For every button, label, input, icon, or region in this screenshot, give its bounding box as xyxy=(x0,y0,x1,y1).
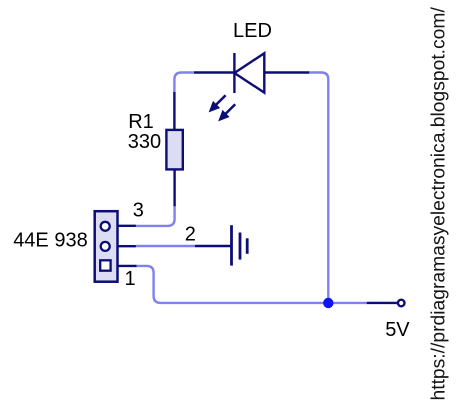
LED emission arrow 1 xyxy=(210,95,226,111)
resistor R1 top lead xyxy=(173,92,175,131)
wire net: resistor top to LED anode-left xyxy=(174,73,194,93)
pin 2 lead xyxy=(118,245,136,247)
LED emission arrow 2 xyxy=(219,104,235,120)
svg-text:1: 1 xyxy=(125,268,136,290)
LED cathode bar xyxy=(233,53,235,93)
LED left lead xyxy=(194,71,234,73)
connector pin circle 2 xyxy=(101,242,110,251)
wire net: pin 1 down to bottom rail and 5V terminal lead xyxy=(137,266,367,303)
LED triangle D1 xyxy=(234,53,264,92)
svg-text:5V: 5V xyxy=(385,319,410,341)
pin 1 lead xyxy=(118,265,137,267)
wire net: LED right lead to right rail down to junction xyxy=(309,73,328,303)
connector J1 body 44E 938 xyxy=(95,211,118,282)
ground bar long xyxy=(230,225,233,265)
svg-text:3: 3 xyxy=(133,200,144,222)
svg-text:LED: LED xyxy=(233,20,272,42)
svg-text:2: 2 xyxy=(185,223,196,245)
junction node xyxy=(323,298,333,308)
connector pin square 1 xyxy=(100,260,110,270)
resistor R1 body xyxy=(166,130,182,170)
resistor R1 bottom lead xyxy=(173,169,175,206)
svg-text:44E 938: 44E 938 xyxy=(13,230,88,252)
ground lead xyxy=(195,245,232,247)
wire net: pin 2 to ground lead xyxy=(136,245,195,247)
ground bar middle xyxy=(239,233,242,260)
wire net: resistor bottom to pin 3 xyxy=(136,206,175,226)
LED right lead xyxy=(264,71,309,73)
5V terminal circle xyxy=(398,300,405,307)
ground bar short xyxy=(246,238,249,254)
svg-text:330: 330 xyxy=(128,131,161,153)
pin 3 lead xyxy=(118,225,136,227)
connector pin circle 3 xyxy=(101,222,110,231)
5V terminal lead xyxy=(367,302,397,304)
svg-text:R1: R1 xyxy=(128,111,154,133)
svg-text:https://prdiagramasyelectronic: https://prdiagramasyelectronica.blogspot… xyxy=(428,7,449,401)
